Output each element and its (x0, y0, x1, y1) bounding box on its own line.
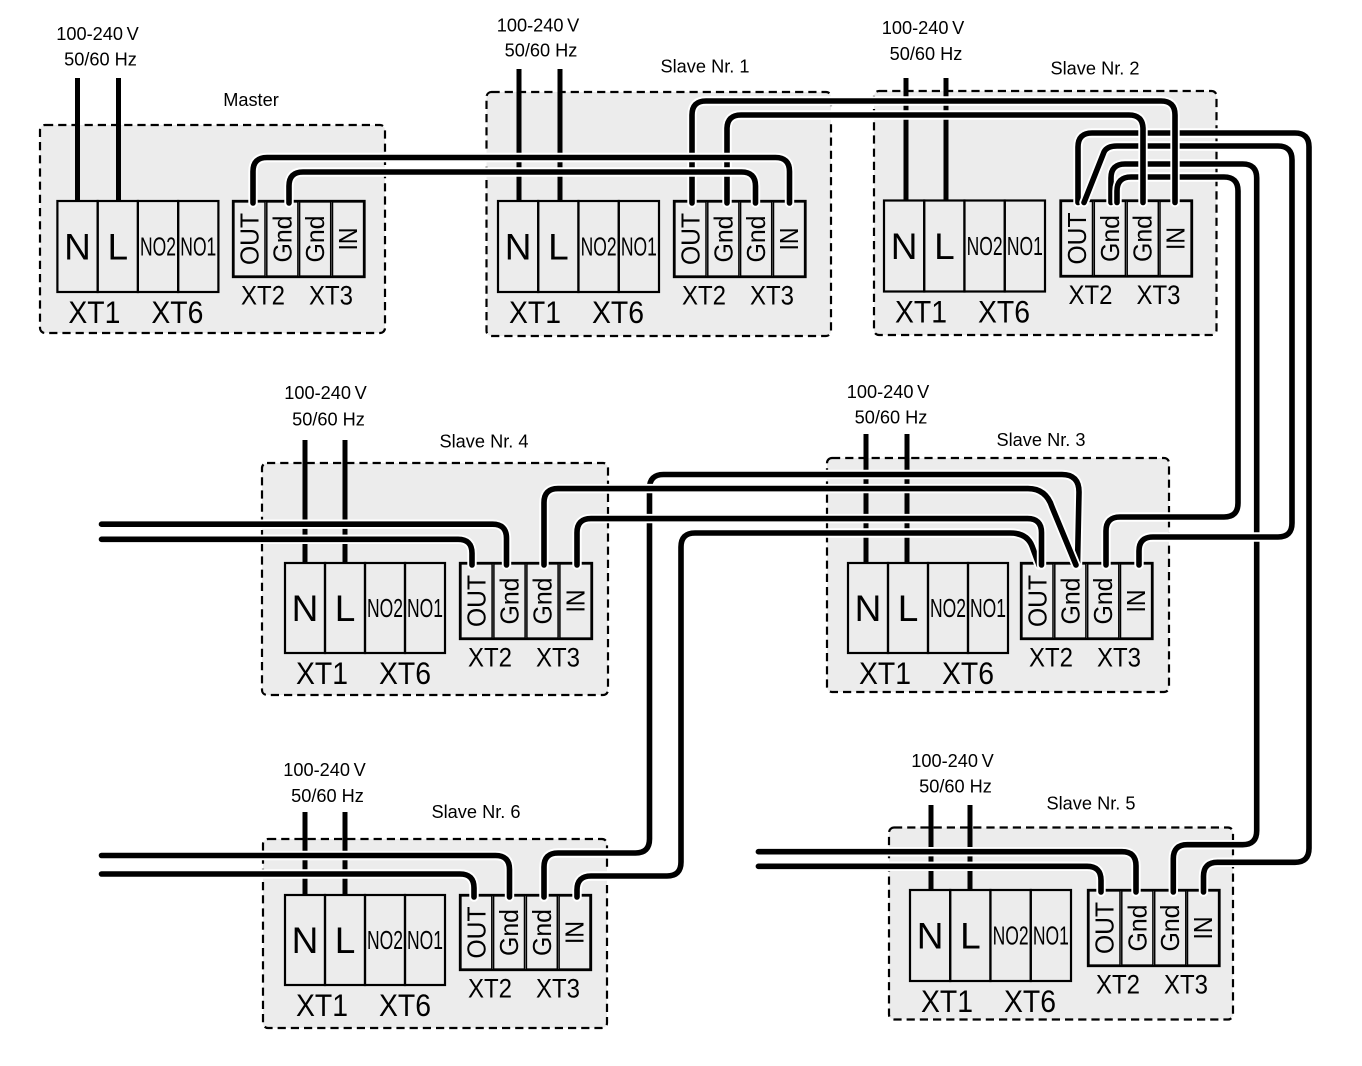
svg-text:L: L (898, 588, 919, 629)
svg-text:Gnd: Gnd (1055, 578, 1085, 625)
svg-text:IN: IN (774, 228, 804, 251)
svg-text:50/60 Hz: 50/60 Hz (64, 50, 137, 70)
wire Slave 1 OUT to Slave 2 IN (692, 101, 1175, 203)
svg-text:XT2: XT2 (468, 974, 512, 1004)
unit Slave Nr. 3 enclosure (dashed box) (827, 458, 1169, 692)
terminal block XT2/XT3 of Master (cells OUT, Gnd, Gnd, IN) (233, 201, 365, 277)
svg-text:NO2: NO2 (367, 927, 403, 955)
svg-text:IN: IN (560, 921, 590, 944)
wire Slave 2 Gnd XT2 to Slave 3 Gnd XT3 (1106, 177, 1238, 565)
wire Slave 5 N supply (929, 805, 934, 890)
svg-text:Gnd: Gnd (1088, 578, 1118, 625)
svg-text:N: N (292, 920, 319, 961)
svg-text:IN: IN (561, 590, 591, 613)
svg-text:Gnd: Gnd (741, 216, 771, 263)
svg-text:XT2: XT2 (1096, 970, 1140, 1000)
wire Slave 1 N supply (517, 69, 522, 201)
svg-text:50/60 Hz: 50/60 Hz (890, 44, 963, 64)
wire Slave 3 OUT to Slave 4 IN (577, 519, 1042, 565)
wire Slave 2 Gnd XT2 to Slave 5 Gnd XT3 (1111, 164, 1257, 892)
svg-text:NO2: NO2 (367, 595, 403, 623)
svg-text:IN: IN (333, 228, 363, 251)
svg-text:L: L (548, 227, 569, 268)
svg-text:Master: Master (223, 90, 279, 110)
svg-text:XT2: XT2 (241, 281, 285, 311)
svg-text:NO1: NO1 (970, 595, 1006, 623)
svg-text:N: N (505, 227, 532, 268)
svg-text:100-240 V: 100-240 V (284, 383, 367, 403)
svg-text:OUT: OUT (1089, 902, 1119, 954)
svg-text:N: N (292, 588, 319, 629)
terminal block XT1/XT6 of Slave 3 (cells N, L, NO2, NO1) (848, 563, 1008, 653)
wire Slave 6 N supply (303, 812, 308, 895)
terminal block XT1/XT6 of Slave 1 (cells N, L, NO2, NO1) (498, 201, 659, 292)
terminal block XT2/XT3 of Slave 5 (cells OUT, Gnd, Gnd, IN) (1088, 890, 1220, 966)
svg-text:50/60 Hz: 50/60 Hz (291, 786, 364, 806)
svg-text:Slave Nr. 5: Slave Nr. 5 (1047, 794, 1136, 814)
terminal block XT2/XT3 of Slave 4 (cells OUT, Gnd, Gnd, IN) (460, 563, 592, 639)
unit Slave Nr. 2 enclosure (dashed box) (874, 91, 1217, 335)
svg-text:XT3: XT3 (536, 643, 580, 673)
svg-text:IN: IN (1188, 917, 1218, 940)
wire Master L supply (116, 78, 121, 201)
svg-text:Slave Nr. 2: Slave Nr. 2 (1051, 59, 1140, 79)
wire Master N supply (75, 78, 80, 201)
wire Slave 5 OUT stub to further units (758, 866, 1101, 892)
svg-text:XT1: XT1 (921, 983, 973, 1019)
terminal block XT2/XT3 of Slave 2 (cells OUT, Gnd, Gnd, IN) (1061, 201, 1193, 277)
wire Slave 4 Gnd XT2 stub to further units (102, 524, 507, 565)
svg-text:XT3: XT3 (309, 281, 353, 311)
wire Slave 6 L supply (343, 812, 348, 895)
wire Slave 2 OUT to Slave 3 IN (1084, 146, 1292, 565)
svg-text:50/60 Hz: 50/60 Hz (855, 408, 928, 428)
svg-text:NO2: NO2 (930, 595, 966, 623)
svg-text:OUT: OUT (234, 213, 264, 265)
wire Slave 6 OUT stub to further units (102, 874, 475, 897)
svg-text:IN: IN (1121, 590, 1151, 613)
svg-text:XT2: XT2 (1029, 643, 1073, 673)
svg-text:100-240 V: 100-240 V (847, 382, 930, 402)
svg-text:NO1: NO1 (407, 927, 443, 955)
wire Slave 6 Gnd XT2 stub to further units (102, 856, 510, 898)
svg-text:L: L (335, 920, 356, 961)
wire Slave 5 L supply (968, 805, 973, 890)
unit Slave Nr. 1 enclosure (dashed box) (487, 92, 832, 336)
svg-text:IN: IN (1161, 227, 1191, 250)
svg-text:Gnd: Gnd (267, 216, 297, 263)
svg-text:XT6: XT6 (592, 294, 644, 330)
svg-text:NO1: NO1 (1033, 923, 1069, 951)
svg-text:N: N (917, 916, 944, 957)
svg-text:XT6: XT6 (978, 294, 1030, 330)
svg-text:Slave Nr. 1: Slave Nr. 1 (661, 57, 750, 77)
svg-text:100-240 V: 100-240 V (882, 18, 965, 38)
svg-text:XT3: XT3 (1164, 970, 1208, 1000)
svg-text:XT1: XT1 (859, 655, 911, 691)
svg-text:OUT: OUT (1022, 575, 1052, 627)
svg-text:Slave Nr. 6: Slave Nr. 6 (432, 802, 521, 822)
svg-text:XT1: XT1 (509, 294, 561, 330)
svg-text:50/60 Hz: 50/60 Hz (505, 41, 578, 61)
svg-text:Gnd: Gnd (527, 909, 557, 956)
unit Slave Nr. 5 enclosure (dashed box) (889, 828, 1233, 1020)
svg-text:XT2: XT2 (682, 281, 726, 311)
svg-text:XT1: XT1 (68, 294, 120, 330)
svg-text:XT3: XT3 (750, 281, 794, 311)
terminal block XT1/XT6 of Slave 4 (cells N, L, NO2, NO1) (285, 563, 445, 653)
svg-text:Gnd: Gnd (494, 909, 524, 956)
wire Slave 3 L supply (905, 434, 910, 563)
svg-text:L: L (934, 226, 955, 267)
wire Slave 2 OUT to Slave 5 IN (1078, 133, 1309, 892)
svg-text:100-240 V: 100-240 V (497, 16, 580, 36)
svg-text:Slave Nr. 3: Slave Nr. 3 (997, 430, 1086, 450)
wire Slave 5 Gnd XT2 stub to further units (758, 852, 1136, 892)
svg-text:L: L (335, 588, 356, 629)
svg-text:Gnd: Gnd (708, 216, 738, 263)
wire Master Gnd XT2 to Slave 1 Gnd XT3 (289, 172, 756, 203)
svg-text:100-240 V: 100-240 V (56, 24, 139, 44)
terminal block XT1/XT6 of Slave 2 (cells N, L, NO2, NO1) (884, 201, 1045, 292)
svg-text:XT6: XT6 (379, 655, 431, 691)
svg-text:XT6: XT6 (1004, 983, 1056, 1019)
svg-text:XT1: XT1 (296, 655, 348, 691)
wire Slave 4 L supply (343, 440, 348, 563)
svg-text:NO1: NO1 (1007, 233, 1043, 261)
svg-text:NO2: NO2 (140, 234, 176, 262)
svg-text:XT2: XT2 (1069, 280, 1113, 310)
svg-text:NO2: NO2 (993, 923, 1029, 951)
wire Slave 3 Gnd XT2 to Slave 4 Gnd XT3 (544, 489, 1076, 565)
unit Slave Nr. 6 enclosure (dashed box) (263, 839, 607, 1028)
wire Slave 3 N supply (864, 434, 869, 563)
svg-text:Gnd: Gnd (1128, 215, 1158, 262)
svg-text:L: L (960, 916, 981, 957)
svg-text:Gnd: Gnd (1122, 905, 1152, 952)
terminal block XT1/XT6 of Slave 5 (cells N, L, NO2, NO1) (910, 890, 1071, 981)
terminal block XT2/XT3 of Slave 1 (cells OUT, Gnd, Gnd, IN) (674, 201, 806, 277)
svg-text:Gnd: Gnd (1095, 215, 1125, 262)
terminal block XT1/XT6 of Master (cells N, L, NO2, NO1) (57, 201, 218, 292)
svg-text:Gnd: Gnd (495, 578, 525, 625)
svg-text:NO1: NO1 (621, 234, 657, 262)
svg-text:XT2: XT2 (468, 643, 512, 673)
svg-text:XT3: XT3 (536, 974, 580, 1004)
svg-text:NO2: NO2 (967, 233, 1003, 261)
wire Master OUT to Slave 1 IN (253, 158, 790, 204)
svg-text:XT6: XT6 (151, 294, 203, 330)
svg-text:XT6: XT6 (379, 987, 431, 1023)
wire Slave 2 L supply (944, 78, 949, 201)
wire Slave 3 OUT to Slave 6 IN (577, 533, 1039, 897)
svg-text:Slave Nr. 4: Slave Nr. 4 (440, 432, 529, 452)
unit Slave Nr. 4 enclosure (dashed box) (262, 463, 608, 695)
terminal block XT1/XT6 of Slave 6 (cells N, L, NO2, NO1) (285, 895, 445, 985)
wire Slave 4 OUT stub to further units (102, 539, 473, 565)
svg-text:XT1: XT1 (895, 294, 947, 330)
wire Slave 1 L supply (558, 69, 563, 201)
svg-text:50/60 Hz: 50/60 Hz (292, 410, 365, 430)
svg-text:L: L (108, 227, 129, 268)
svg-text:N: N (891, 226, 918, 267)
svg-text:100-240 V: 100-240 V (283, 760, 366, 780)
wire Slave 2 N supply (904, 78, 909, 201)
svg-text:OUT: OUT (675, 213, 705, 265)
svg-text:XT3: XT3 (1137, 280, 1181, 310)
svg-text:XT6: XT6 (942, 655, 994, 691)
terminal block XT2/XT3 of Slave 3 (cells OUT, Gnd, Gnd, IN) (1021, 563, 1153, 639)
svg-text:XT1: XT1 (296, 987, 348, 1023)
wire Slave 3 Gnd XT2 to Slave 6 Gnd XT3 (544, 475, 1079, 898)
unit Master enclosure (dashed box) (40, 125, 385, 333)
svg-text:Gnd: Gnd (528, 578, 558, 625)
wire Slave 1 Gnd XT2 to Slave 2 Gnd XT3 (727, 115, 1143, 203)
svg-text:Gnd: Gnd (300, 216, 330, 263)
terminal block XT2/XT3 of Slave 6 (cells OUT, Gnd, Gnd, IN) (460, 895, 591, 970)
svg-text:Gnd: Gnd (1155, 905, 1185, 952)
svg-text:NO1: NO1 (407, 595, 443, 623)
svg-text:50/60 Hz: 50/60 Hz (919, 777, 992, 797)
svg-text:XT3: XT3 (1097, 643, 1141, 673)
svg-text:NO1: NO1 (180, 234, 216, 262)
svg-text:N: N (855, 588, 882, 629)
svg-text:N: N (64, 227, 91, 268)
svg-text:100-240 V: 100-240 V (911, 751, 994, 771)
svg-text:OUT: OUT (462, 575, 492, 627)
wire Slave 4 N supply (303, 440, 308, 563)
svg-text:OUT: OUT (1062, 212, 1092, 264)
svg-text:NO2: NO2 (581, 234, 617, 262)
svg-text:OUT: OUT (461, 906, 491, 958)
